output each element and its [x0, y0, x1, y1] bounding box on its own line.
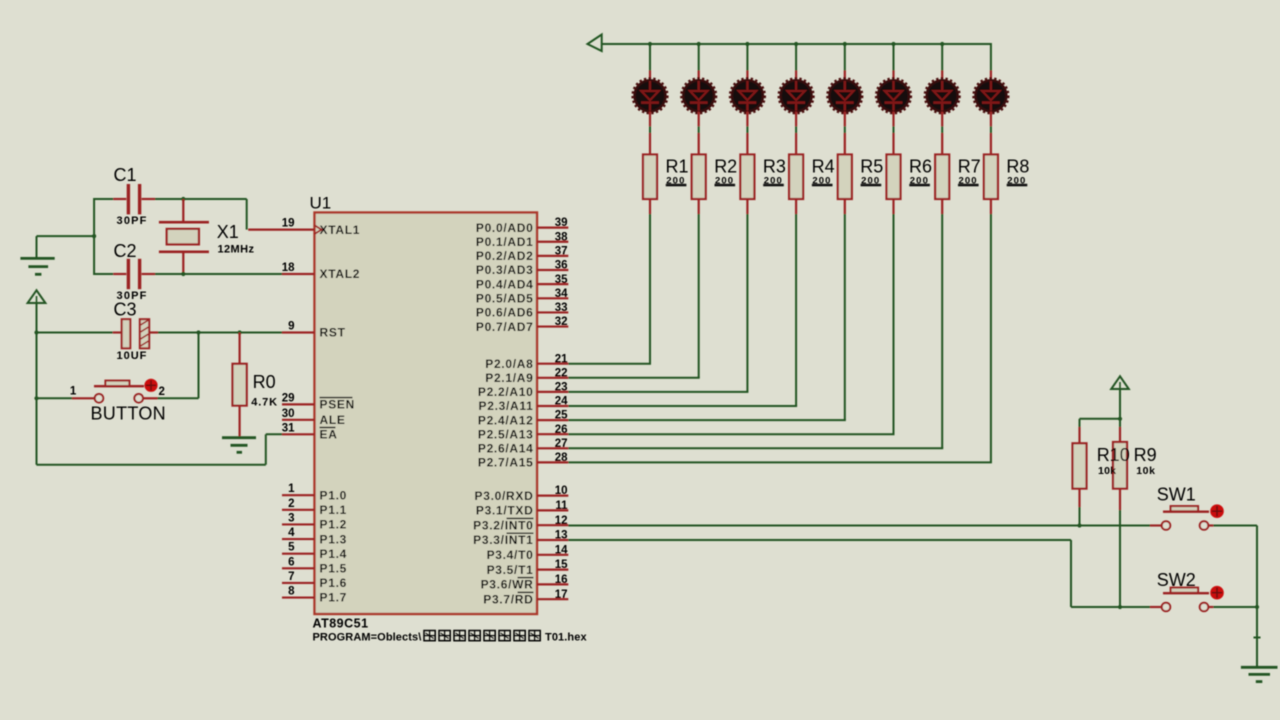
svg-text:P1.6: P1.6: [320, 576, 348, 590]
svg-text:R10: R10: [1097, 445, 1130, 465]
pin label P3.3/INT1: [473, 533, 533, 547]
svg-text:P3.3/INT1: P3.3/INT1: [473, 533, 533, 547]
value label 4.7K of R0: [251, 397, 278, 409]
svg-text:T01.hex: T01.hex: [545, 632, 587, 644]
label PROGRAM=Objects\...hex (program property): [313, 631, 588, 644]
svg-text:P3.5/T1: P3.5/T1: [487, 563, 534, 577]
pin resistor R2 top: [698, 133, 700, 155]
pin label P2.2: [478, 385, 534, 399]
pin 15 stub (P3.5/T1): [537, 568, 568, 570]
pin 28 stub (P2.7): [537, 461, 568, 463]
svg-text:28: 28: [555, 452, 568, 464]
svg-text:9: 9: [288, 321, 294, 333]
pin label P0.1: [476, 235, 534, 249]
svg-text:X1: X1: [217, 222, 239, 242]
svg-text:R1: R1: [666, 157, 689, 177]
svg-text:1: 1: [288, 483, 295, 495]
pin resistor R8 bottom: [990, 199, 992, 214]
svg-text:P2.1/A9: P2.1/A9: [485, 371, 533, 385]
svg-text:P1.4: P1.4: [320, 547, 348, 561]
pin 17 stub (P3.7/RD): [537, 598, 568, 600]
wire C1 left: [94, 198, 113, 200]
pin label P0.2: [476, 249, 534, 263]
pin R9 bottom: [1119, 489, 1121, 510]
junction VCC / R10 branch: [1118, 417, 1122, 421]
pin 38 stub (P0.1): [537, 241, 568, 243]
svg-text:26: 26: [555, 424, 568, 436]
junction top rail / LED D1 column: [648, 42, 652, 46]
svg-text:R0: R0: [253, 372, 276, 392]
resistor R4: [789, 155, 803, 200]
svg-text:8: 8: [288, 586, 295, 598]
pin crystal top: [182, 199, 184, 222]
pin cathode LED D4: [795, 112, 797, 127]
svg-text:P0.0/AD0: P0.0/AD0: [476, 221, 534, 235]
wire R2 down to P2.1 row: [698, 214, 700, 378]
svg-text:16: 16: [555, 574, 568, 586]
pin SW1 left: [1150, 524, 1161, 526]
value label 30PF of C1: [117, 215, 148, 227]
pin resistor R8 top: [990, 133, 992, 155]
svg-text:P2.4/A12: P2.4/A12: [478, 413, 534, 427]
wire R10 drop: [1079, 419, 1081, 427]
svg-text:P1.1: P1.1: [320, 503, 348, 517]
pin 11 stub (TXD): [537, 509, 568, 511]
svg-text:P3.7/RD: P3.7/RD: [483, 592, 533, 606]
svg-text:34: 34: [555, 288, 568, 300]
svg-text:P0.4/AD4: P0.4/AD4: [476, 277, 534, 291]
pin 9 stub (RST): [282, 331, 315, 333]
wire rail to LED D5: [844, 43, 846, 71]
pin R10 top: [1078, 427, 1080, 443]
wire LED D7 to resistor R7: [941, 126, 943, 133]
pin label P1.1: [320, 503, 348, 517]
wire R7 down to P2.6 row: [941, 214, 943, 448]
ground (left): [20, 258, 54, 274]
pin label P1.3: [320, 532, 348, 546]
svg-text:C2: C2: [114, 241, 137, 261]
pin 26 stub (P2.5): [537, 433, 568, 435]
wire down to XTAL1: [246, 199, 248, 230]
pin label P0.3: [476, 263, 534, 277]
pin C2 right: [142, 273, 155, 275]
wire P2.4 to R5: [568, 419, 846, 421]
svg-text:P2.3/A11: P2.3/A11: [479, 399, 534, 413]
pin anode LED D5: [844, 71, 846, 81]
junction cap rail / ground branch: [92, 234, 96, 238]
resistor R0: [233, 364, 247, 406]
wire R6 down to P2.5 row: [893, 214, 895, 434]
pin label P2.6: [478, 442, 534, 456]
pin label P3.5/T1: [487, 563, 534, 577]
pin 35 stub (P0.4): [537, 283, 568, 285]
pin resistor R1 top: [649, 133, 651, 155]
power VCC arrow (left): [28, 290, 46, 303]
LED D6: [876, 79, 910, 113]
pin 4 stub (P1.3): [282, 538, 315, 540]
value label 200 of R3: [763, 175, 784, 186]
pin anode LED D1: [649, 71, 651, 81]
svg-text:P2.0/A8: P2.0/A8: [485, 357, 533, 371]
pin SW2 right: [1209, 606, 1214, 608]
junction C1 line / crystal top: [181, 197, 185, 201]
button actuate dot (red): [144, 379, 157, 392]
wire P2.0 to R1: [568, 363, 651, 365]
wire C2 left: [94, 273, 113, 275]
pin label P2.3: [479, 399, 534, 413]
pin resistor R1 bottom: [649, 199, 651, 214]
svg-text:P3.4/T0: P3.4/T0: [487, 548, 534, 562]
pin label P1.2: [320, 518, 348, 532]
pin 36 stub (P0.3): [537, 269, 568, 271]
LED D3: [730, 79, 764, 113]
svg-text:30: 30: [282, 408, 295, 420]
pin cathode LED D1: [649, 112, 651, 127]
pin label P1.7: [320, 591, 348, 605]
pin anode LED D2: [698, 71, 700, 81]
LED D7: [925, 79, 959, 113]
value label 12MHz of X1: [218, 244, 255, 256]
svg-text:P2.6/A14: P2.6/A14: [478, 442, 534, 456]
pin 7 stub (P1.6): [282, 582, 315, 584]
clock input arrow on XTAL1: [315, 225, 322, 234]
pin resistor R7 bottom: [941, 199, 943, 214]
svg-text:37: 37: [555, 245, 568, 257]
pin R10 bottom: [1078, 489, 1080, 507]
svg-text:24: 24: [555, 396, 568, 408]
pin resistor R3 top: [746, 133, 748, 155]
wire R3 down to P2.2 row: [746, 214, 748, 392]
value label 200 of R7: [958, 175, 979, 186]
crystal X1: [159, 222, 209, 252]
pin 3 stub (P1.2): [282, 523, 315, 525]
svg-text:P0.2/AD2: P0.2/AD2: [476, 249, 534, 263]
resistor R1: [643, 155, 657, 200]
LED D5: [828, 79, 862, 113]
svg-text:10UF: 10UF: [117, 350, 148, 362]
svg-text:21: 21: [555, 353, 568, 365]
resistor R9: [1113, 442, 1127, 489]
svg-text:R4: R4: [812, 157, 835, 177]
value label 200 of R2: [715, 175, 736, 186]
pin label P3.7/RD: [483, 592, 533, 606]
wire INT1 to SW2: [1071, 606, 1150, 608]
svg-text:2: 2: [159, 386, 165, 398]
pin resistor R6 bottom: [892, 199, 894, 214]
pin C1 right: [142, 198, 155, 200]
wire R1 down to P2.0 row: [649, 214, 651, 364]
svg-text:P0.5/AD5: P0.5/AD5: [476, 292, 534, 306]
wire rail to LED D1: [649, 43, 651, 71]
wire P2.5 to R6: [568, 433, 894, 435]
pin C1 left: [113, 198, 126, 200]
resistor R2: [692, 155, 706, 200]
wire C2 to XTAL2: [155, 273, 282, 275]
pin 25 stub (P2.4): [537, 419, 568, 421]
wire left VCC rail: [36, 303, 38, 465]
value label 10UF of C3: [117, 350, 148, 362]
wire LED D6 to resistor R6: [893, 126, 895, 133]
svg-text:C3: C3: [114, 300, 137, 320]
pin button 2: [143, 397, 157, 399]
svg-text:P1.3: P1.3: [320, 532, 348, 546]
value label 30PF of C2: [117, 290, 148, 302]
tick on right rail: [1254, 637, 1261, 639]
value label 200 of R1: [666, 175, 687, 186]
switch SW1: [1162, 506, 1209, 530]
svg-text:35: 35: [555, 274, 568, 286]
pin 29 stub (PSEN): [282, 403, 315, 405]
wire LED D2 to resistor R2: [698, 126, 700, 133]
pin anode LED D3: [746, 71, 748, 81]
pin 21 stub (P2.0): [537, 363, 568, 365]
wire rail to LED D7: [941, 43, 943, 71]
svg-text:36: 36: [555, 260, 568, 272]
wire R5 down to P2.4 row: [844, 214, 846, 420]
wire rail to LED D8: [990, 43, 992, 71]
wire R4 down to P2.3 row: [795, 214, 797, 406]
junction R10 / SW1 line: [1077, 523, 1081, 527]
svg-text:30PF: 30PF: [117, 215, 148, 227]
wire left cap rail: [93, 198, 95, 275]
svg-text:2: 2: [288, 498, 294, 510]
resistor R6: [887, 155, 901, 200]
svg-text:P3.6/WR: P3.6/WR: [481, 578, 534, 592]
wire R9 to SW2 line: [1119, 510, 1121, 607]
pin 39 stub (P0.0): [537, 227, 568, 229]
svg-text:P1.7: P1.7: [320, 591, 348, 605]
pin label PSEN: [320, 398, 355, 412]
pin label TXD: [476, 504, 534, 518]
svg-text:18: 18: [282, 262, 295, 274]
svg-text:13: 13: [555, 530, 568, 542]
pin 22 stub (P2.1): [537, 377, 568, 379]
wire RST line left: [37, 332, 113, 334]
pin label ALE: [320, 413, 346, 427]
svg-text:P1.0: P1.0: [320, 488, 348, 502]
pin resistor R5 bottom: [844, 199, 846, 214]
pin label P2.5: [478, 427, 534, 441]
value label 200 of R5: [861, 175, 882, 186]
capacitor C3 (electrolytic 10uF): [122, 319, 150, 348]
wire R10 to SW1 line: [1079, 507, 1081, 526]
ground (bottom right): [1241, 667, 1278, 681]
svg-text:17: 17: [555, 589, 568, 601]
svg-text:11: 11: [555, 500, 568, 512]
pin label XTAL2: [320, 267, 361, 281]
resistor R3: [740, 155, 754, 200]
pin R0 top: [239, 333, 241, 364]
pin resistor R5 top: [844, 133, 846, 155]
pin label P1.4: [320, 547, 348, 561]
svg-text:10: 10: [555, 485, 568, 497]
junction top rail / LED D4 column: [794, 42, 798, 46]
capacitor C1: [128, 184, 139, 214]
pin label P0.4: [476, 277, 534, 291]
LED D1: [633, 79, 667, 113]
pin label P0.0: [476, 221, 534, 235]
svg-text:P2.2/A10: P2.2/A10: [478, 385, 534, 399]
pin C2 left: [113, 273, 126, 275]
resistor R7: [935, 155, 949, 200]
wire EA connect: [266, 433, 282, 435]
svg-text:P0.1/AD1: P0.1/AD1: [476, 235, 534, 249]
switch SW2: [1162, 588, 1209, 612]
pin 12 stub (P3.2/INT0): [537, 524, 568, 526]
pin resistor R4 bottom: [795, 199, 797, 214]
wire right rail down: [1256, 526, 1258, 667]
pin 31 stub (EA): [282, 433, 315, 435]
wire top LED supply rail: [602, 43, 991, 45]
svg-text:10k: 10k: [1136, 465, 1155, 477]
svg-text:14: 14: [555, 544, 568, 556]
value label 10k of R10: [1098, 465, 1116, 477]
LED D2: [682, 79, 716, 113]
pin anode LED D4: [795, 71, 797, 81]
junction SW2 / right rail: [1255, 605, 1259, 609]
svg-text:7: 7: [288, 571, 294, 583]
junction top rail / LED D7 column: [940, 42, 944, 46]
svg-text:BUTTON: BUTTON: [91, 404, 166, 424]
pin label RST: [320, 326, 346, 340]
wire LED D5 to resistor R5: [844, 126, 846, 133]
pin 8 stub (P1.7): [282, 596, 315, 598]
pin resistor R3 bottom: [746, 199, 748, 214]
pin 13 stub (P3.3/INT1): [537, 539, 568, 541]
pin cathode LED D6: [892, 112, 894, 127]
wire R8 down to P2.7 row: [990, 214, 992, 462]
pin label P1.0: [320, 488, 348, 502]
pin label P3.4/T0: [487, 548, 534, 562]
wire P2.2 to R3: [568, 391, 748, 393]
svg-text:P1.5: P1.5: [320, 562, 348, 576]
svg-text:38: 38: [555, 231, 568, 243]
capacitor C2: [128, 259, 139, 289]
pin SW1 right: [1209, 524, 1214, 526]
resistor R8: [984, 155, 998, 200]
pin 2 stub (P1.1): [282, 509, 315, 511]
wire LED D8 to resistor R8: [990, 126, 992, 133]
wire SW2 to right rail: [1213, 606, 1257, 608]
resistor R10: [1073, 443, 1087, 488]
wire branch to R10: [1080, 418, 1121, 420]
wire C3 to RST: [158, 332, 282, 334]
wire rail to LED D6: [893, 43, 895, 71]
pin cathode LED D5: [844, 112, 846, 127]
wire LED D3 to resistor R3: [746, 126, 748, 133]
pin 14 stub (P3.4/T0): [537, 554, 568, 556]
svg-text:29: 29: [282, 392, 295, 404]
pin 6 stub (P1.5): [282, 567, 315, 569]
wire VCC to R9: [1119, 389, 1121, 427]
svg-text:6: 6: [288, 556, 294, 568]
pin button 1: [72, 397, 95, 399]
pin anode LED D6: [892, 71, 894, 81]
pin 1 stub (P1.0): [282, 494, 315, 496]
pin 16 stub (P3.6/WR): [537, 583, 568, 585]
svg-text:12MHz: 12MHz: [218, 244, 255, 256]
pin anode LED D8: [990, 71, 992, 81]
pin label P3.2/INT0: [473, 518, 533, 532]
pin 34 stub (P0.5): [537, 297, 568, 299]
svg-text:SW2: SW2: [1157, 570, 1196, 590]
wire P2.7 to R8: [568, 461, 992, 463]
junction top rail / LED D5 column: [843, 42, 847, 46]
svg-text:19: 19: [282, 218, 295, 230]
svg-text:U1: U1: [310, 194, 332, 213]
pin 18 stub (XTAL2): [282, 273, 315, 275]
pin 5 stub (P1.4): [282, 553, 315, 555]
svg-text:R3: R3: [763, 157, 786, 177]
wire ground drop (left): [36, 236, 38, 257]
pin C3 left: [113, 331, 122, 333]
wire P3.2 INT0 to SW1: [568, 525, 1150, 527]
junction RST line / R0: [238, 330, 242, 334]
pin cathode LED D7: [941, 112, 943, 127]
switch SW2 actuate dot (red): [1210, 586, 1224, 600]
svg-text:4: 4: [288, 527, 295, 539]
pin SW2 left: [1150, 606, 1161, 608]
svg-text:P3.2/INT0: P3.2/INT0: [473, 518, 533, 532]
pin label P1.6: [320, 576, 348, 590]
value label 200 of R6: [909, 175, 930, 186]
pin crystal bottom: [182, 252, 184, 274]
pin label P3.6/WR: [481, 578, 534, 592]
pin resistor R2 bottom: [698, 199, 700, 214]
pin 27 stub (P2.6): [537, 447, 568, 449]
power VCC arrow (right): [1111, 376, 1129, 389]
pin label P2.4: [478, 413, 534, 427]
wire C1 to XTAL1 corner: [155, 198, 247, 200]
svg-text:P3.1/TXD: P3.1/TXD: [476, 504, 534, 518]
pin label EA: [320, 428, 338, 442]
pin 24 stub (P2.3): [537, 405, 568, 407]
value label 10k of R9: [1136, 465, 1155, 477]
svg-text:P0.6/AD6: P0.6/AD6: [476, 306, 534, 320]
pin 10 stub (RXD): [537, 495, 568, 497]
pin label P2.1: [485, 371, 533, 385]
junction top rail / LED D6 column: [891, 42, 895, 46]
svg-text:33: 33: [555, 302, 568, 314]
svg-text:1: 1: [70, 386, 77, 398]
svg-text:EA: EA: [320, 428, 338, 442]
wire SW1 to right rail: [1213, 525, 1257, 527]
svg-text:R2: R2: [714, 157, 737, 177]
svg-text:31: 31: [282, 422, 295, 434]
LED D8: [974, 79, 1008, 113]
svg-text:P2.5/A13: P2.5/A13: [478, 427, 534, 441]
junction top rail / LED D3 column: [745, 42, 749, 46]
svg-text:P1.2: P1.2: [320, 518, 348, 532]
pin resistor R6 top: [892, 133, 894, 155]
pin cathode LED D8: [990, 112, 992, 127]
svg-text:XTAL1: XTAL1: [320, 223, 361, 237]
wire VCC rail to button: [37, 397, 73, 399]
svg-text:R9: R9: [1134, 445, 1157, 465]
wire bottom EA rail: [37, 464, 266, 466]
svg-text:ALE: ALE: [320, 413, 346, 427]
ground (below R0): [222, 438, 256, 453]
wire up to EA: [265, 434, 267, 464]
pin 33 stub (P0.6): [537, 311, 568, 313]
svg-text:PSEN: PSEN: [320, 398, 355, 412]
svg-text:12: 12: [555, 515, 568, 527]
wire P2.3 to R4: [568, 405, 797, 407]
svg-text:P2.7/A15: P2.7/A15: [478, 456, 534, 470]
pin 23 stub (P2.2): [537, 391, 568, 393]
resistor R5: [838, 155, 852, 200]
wire button branch down: [198, 333, 200, 399]
